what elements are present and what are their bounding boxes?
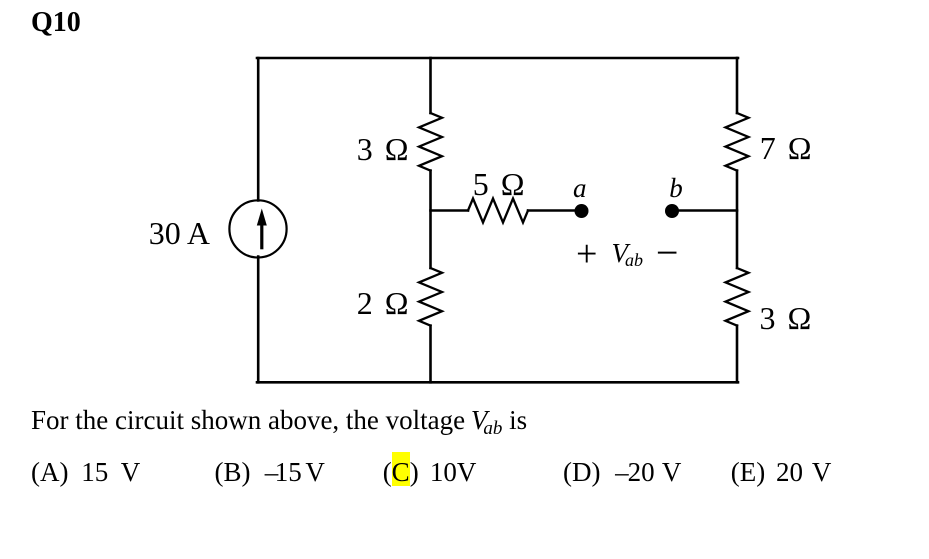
wire top <box>257 57 738 60</box>
wire left bottom segment <box>257 257 260 383</box>
resistor 3 ohm middle <box>419 113 442 171</box>
wire right branch center <box>736 171 739 268</box>
option D value <box>615 459 629 486</box>
wire middle branch top <box>429 58 432 113</box>
option E marker <box>731 459 765 486</box>
node label b <box>669 175 683 202</box>
option E value <box>776 459 803 486</box>
question text <box>31 407 527 438</box>
option D marker <box>563 459 600 486</box>
label 5 ohm <box>473 168 525 200</box>
wire right branch bottom <box>736 326 739 383</box>
label Vab <box>612 240 644 269</box>
option C value <box>430 459 477 486</box>
wire node b to right branch <box>675 209 737 212</box>
node label a <box>573 175 587 202</box>
option A marker <box>31 459 68 486</box>
wire bottom <box>257 381 738 384</box>
label 30 A <box>149 217 210 249</box>
polarity plus <box>576 235 597 273</box>
label 2 ohm middle <box>357 287 409 319</box>
current source I1 30 A <box>229 200 286 257</box>
polarity minus <box>656 233 679 273</box>
resistor 7 ohm right <box>726 113 749 171</box>
option C highlight box <box>392 452 410 486</box>
resistor 2 ohm middle <box>419 268 442 326</box>
option B value <box>265 459 279 486</box>
label 3 ohm middle <box>357 133 409 165</box>
resistor 5 ohm horizontal <box>468 199 528 223</box>
option C marker <box>383 459 419 486</box>
wire middle branch center <box>429 171 432 268</box>
node b terminal dot <box>665 204 679 218</box>
option A value <box>81 459 108 486</box>
label 7 ohm <box>760 132 812 164</box>
resistor 3 ohm right <box>726 268 749 326</box>
wire left top segment <box>257 58 260 201</box>
wire 5 ohm to node a <box>528 209 578 212</box>
title Q10 <box>31 9 81 37</box>
option B marker <box>215 459 251 486</box>
wire middle branch bottom <box>429 326 432 383</box>
wire middle node to 5 ohm <box>431 209 469 212</box>
node a terminal dot <box>575 204 589 218</box>
label 3 ohm right <box>760 302 812 334</box>
wire right branch top <box>736 58 739 113</box>
